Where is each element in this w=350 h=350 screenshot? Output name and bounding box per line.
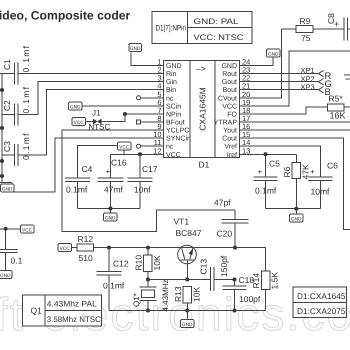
svg-text:VCC: VCC: [60, 246, 71, 252]
svg-text:C16: C16: [111, 157, 127, 167]
svg-text:10K: 10K: [152, 255, 162, 270]
svg-text:C17: C17: [142, 164, 158, 174]
svg-text:XP3: XP3: [301, 82, 315, 91]
svg-text:0.1mf: 0.1mf: [21, 45, 31, 73]
svg-text:VCC: VCC: [22, 227, 33, 233]
svg-text:1.5K: 1.5K: [270, 272, 280, 290]
svg-text:GND: GND: [291, 216, 302, 222]
svg-text:VT1: VT1: [174, 217, 190, 227]
svg-text:10nf: 10nf: [134, 185, 151, 195]
svg-text:R13: R13: [173, 286, 183, 302]
capacitor C11 0.1 decoupling: [0, 229, 23, 271]
svg-text:10K: 10K: [192, 287, 202, 302]
svg-text:150pf: 150pf: [219, 255, 229, 277]
svg-text:4.43MHz: 4.43MHz: [161, 279, 170, 311]
svg-text:C5: C5: [269, 158, 280, 168]
capacitor C13: [199, 255, 235, 291]
wire pin11 nc stub: [141, 145, 164, 147]
ground pin24 GND box: [267, 49, 281, 57]
capacitor C6 polarized: [309, 161, 339, 209]
svg-text:GND: GND: [268, 51, 279, 57]
svg-text:C6: C6: [327, 161, 338, 171]
node Iref junction: [264, 152, 268, 156]
wire pin5 nc stub: [141, 97, 164, 99]
node bus junction b: [0, 126, 4, 130]
svg-text:Vref: Vref: [224, 143, 237, 151]
svg-text:0.1: 0.1: [11, 256, 23, 266]
svg-text:D1:CXA1645: D1:CXA1645: [297, 291, 346, 301]
resistor R6: [282, 154, 311, 208]
svg-text:Bin: Bin: [166, 86, 176, 94]
node XP3 connector: [301, 82, 331, 98]
wire jumper branch: [102, 114, 126, 122]
power VCC box R12: [58, 244, 77, 252]
svg-text:C13: C13: [199, 259, 209, 275]
wire pin20 CVout riser to R9: [240, 29, 282, 98]
svg-text:R10: R10: [134, 255, 144, 271]
node bus junction c: [0, 159, 4, 163]
wire C5 R6 C6 ground rail: [266, 208, 321, 210]
wire pin14 Vref to C6: [240, 146, 321, 177]
ground pin10 GND box: [1, 184, 15, 192]
power VCC box left oscillator rail: [0, 225, 34, 233]
ground left decoupling GND box: [0, 271, 12, 279]
wire C1 to pin2 Rin: [18, 73, 164, 75]
svg-text:VCC: VCC: [166, 152, 181, 159]
wire oscillator ground rail: [109, 310, 266, 312]
svg-text:47mf: 47mf: [104, 185, 124, 195]
svg-text:Video, Composite coder: Video, Composite coder: [0, 9, 131, 23]
svg-text:C12: C12: [113, 259, 129, 269]
svg-text:GND: GND: [221, 63, 237, 70]
crystal Q1* 4.43MHz: [132, 279, 170, 311]
svg-text:GND: PAL: GND: PAL: [194, 17, 240, 26]
svg-text:Bout: Bout: [223, 87, 237, 94]
node pin11 open circle: [137, 144, 141, 148]
wire pin9 YCLPC long route to C20: [62, 130, 235, 231]
ground pin6 GND box: [69, 102, 83, 110]
node C20 bottom junction: [233, 246, 237, 250]
node pin8 open square: [137, 120, 141, 124]
svg-text:C3: C3: [2, 141, 12, 152]
svg-text:GND: GND: [2, 186, 13, 192]
svg-text:0.1mf: 0.1mf: [21, 132, 31, 160]
svg-text:FO: FO: [227, 112, 237, 119]
IC right pin numbers 24-13: [242, 58, 250, 156]
svg-text:Q1: Q1: [31, 305, 43, 315]
capacitor C18 100pf: [223, 275, 261, 311]
svg-text:3.58Mhz NTSC: 3.58Mhz NTSC: [47, 315, 101, 324]
svg-text:Cout: Cout: [222, 136, 237, 143]
wire C4 top to VCC: [78, 146, 118, 179]
resistor R12: [77, 234, 109, 263]
transistor Q2 VT1 BC847: [174, 217, 236, 280]
node R13 bottom junction: [185, 309, 189, 313]
svg-text:510: 510: [79, 253, 93, 263]
node crystal top junction: [146, 278, 150, 282]
svg-text:nc: nc: [166, 144, 174, 151]
node XP2 connector: [301, 74, 332, 90]
node C18 bottom junction: [233, 309, 237, 313]
node XP1 connector: [301, 66, 332, 82]
svg-text:D1: D1: [199, 160, 210, 170]
node R10 top junction: [146, 246, 150, 250]
ground bus GND box: [0, 183, 12, 191]
svg-text:C2: C2: [2, 100, 12, 111]
svg-text:GND: GND: [0, 273, 11, 279]
resistor R9: [281, 16, 344, 43]
svg-text:BC847: BC847: [176, 228, 202, 238]
svg-text:CXA1645M: CXA1645M: [198, 87, 208, 130]
svg-text:C1: C1: [2, 59, 12, 70]
svg-text:GND: GND: [105, 215, 116, 221]
svg-text:YCLPC: YCLPC: [166, 128, 189, 135]
node C13 C18 junction: [233, 278, 237, 282]
capacitor C1: [0, 45, 31, 85]
svg-text:10mf: 10mf: [311, 187, 331, 197]
svg-text:GND: GND: [182, 322, 193, 328]
capacitor C17: [128, 154, 158, 208]
svg-text:–>: –>: [196, 64, 206, 74]
capacitor C4: [65, 164, 93, 209]
resistor R5*: [328, 94, 350, 121]
wire pin6 SCin: [82, 105, 164, 107]
svg-text:D1:CXA2075: D1:CXA2075: [297, 306, 346, 316]
node left rail junction: [4, 227, 8, 231]
wire C2 to pin3 Gin: [18, 82, 164, 115]
svg-text:VCC: VCC: [119, 144, 130, 150]
svg-text:Gin: Gin: [166, 78, 177, 86]
svg-text:0.1mf: 0.1mf: [66, 185, 88, 195]
svg-text:YTRAP: YTRAP: [214, 120, 238, 127]
power VCC box pin12: [118, 142, 132, 154]
svg-text:GND: GND: [70, 104, 81, 110]
svg-text:J1: J1: [92, 108, 101, 117]
node R6 ground junction: [294, 207, 298, 211]
wire pin15 Cout: [240, 138, 350, 229]
svg-text:R6: R6: [282, 166, 292, 177]
capacitor C8 polarized output: [326, 13, 350, 41]
svg-text:47pf: 47pf: [214, 197, 231, 207]
svg-text:CVout: CVout: [218, 95, 237, 102]
svg-text:Yout: Yout: [223, 128, 237, 135]
capacitor C12: [97, 248, 129, 311]
svg-text:R14: R14: [251, 273, 261, 289]
wire C3 to pin4 Bin: [18, 90, 164, 155]
svg-text:VCC: VCC: [222, 103, 237, 110]
svg-text:R5*: R5*: [329, 94, 344, 104]
node crystal bottom junction: [146, 309, 150, 313]
svg-text:C20: C20: [217, 229, 233, 239]
wire pin13 Iref: [240, 153, 297, 155]
wire pin1 GND: [131, 53, 164, 66]
svg-text:0.1mf: 0.1mf: [103, 280, 125, 290]
wire pin12 VCC: [111, 153, 164, 155]
note box Q1 4.43Mhz PAL / 3.58Mhz NTSC: [22, 295, 101, 326]
svg-text:Q1*: Q1*: [132, 293, 141, 307]
svg-text:75: 75: [301, 33, 311, 43]
node C16 ground junction: [109, 207, 113, 211]
wire pin22 Gout to XP2: [240, 81, 319, 83]
capacitor C16 polarized: [98, 154, 127, 208]
svg-text:+: +: [334, 19, 339, 29]
ground C5 rail GND box: [290, 209, 304, 223]
ground edge connector bars: [344, 75, 350, 79]
wire pin8 BFout stub: [141, 121, 164, 123]
wire pin24 GND: [240, 57, 274, 66]
node R12 C12 junction: [107, 246, 111, 250]
node bus junction d: [0, 174, 4, 178]
svg-text:16K: 16K: [330, 110, 346, 120]
svg-text:C4: C4: [82, 164, 93, 174]
svg-text:VCC: NTSC: VCC: NTSC: [194, 33, 244, 42]
op-amp substitute: IC U1 CXA1645M (D1) body: [164, 61, 240, 170]
wire pin23 Rout to XP1: [240, 73, 319, 75]
svg-text:NPin: NPin: [166, 111, 181, 119]
svg-text:0.1mf: 0.1mf: [255, 186, 277, 196]
IC left pin labels pins 1-12: [166, 63, 191, 159]
wire base rail R12 to VT1: [109, 247, 178, 249]
svg-text:SCin: SCin: [166, 102, 181, 110]
node bus junction a: [0, 88, 4, 92]
svg-text:Iref: Iref: [227, 151, 237, 159]
svg-text:R12: R12: [78, 234, 94, 244]
jumper J1: [86, 108, 111, 131]
svg-text:SYNCin: SYNCin: [166, 135, 191, 143]
svg-text:Rout: Rout: [222, 71, 237, 78]
power J1 VCC box: [72, 118, 86, 126]
svg-text:+: +: [310, 168, 315, 177]
node pin7 junction: [123, 112, 127, 116]
svg-text:GND: GND: [130, 46, 141, 52]
svg-text:+: +: [258, 168, 263, 177]
resistor R10: [134, 248, 163, 280]
ground C16 GND box: [104, 209, 118, 222]
wire pin18 FO to R5: [240, 107, 328, 114]
wire left input bus: [1, 74, 3, 183]
capacitor C20 47pf: [214, 197, 249, 247]
note table D1:CXA1645 / D1:CXA2075: [293, 287, 347, 318]
IC right pin labels pins 24-13: [214, 63, 238, 159]
ground R13 GND box: [181, 311, 195, 328]
wire crystal to C13 rail: [148, 279, 210, 281]
svg-text:BFout: BFout: [166, 120, 185, 127]
svg-text:Rin: Rin: [166, 70, 177, 78]
svg-text:4.43Mhz PAL: 4.43Mhz PAL: [47, 300, 98, 309]
svg-text:GND: GND: [166, 63, 182, 70]
svg-text:0.1mf: 0.1mf: [21, 86, 31, 114]
svg-text:+: +: [106, 167, 111, 176]
resistor R13: [173, 286, 202, 310]
svg-text:Gout: Gout: [222, 79, 237, 86]
IC left pin numbers 1-12: [153, 58, 161, 156]
wire pin10 SYNCin to ground: [7, 138, 164, 192]
wire pin19 VCC riser: [240, 51, 350, 106]
wire pin7 NPin: [125, 113, 164, 115]
capacitor C5 polarized: [254, 154, 281, 208]
node VT1 base junction: [185, 278, 189, 282]
capacitor C3: [2, 132, 31, 166]
capacitor C2: [2, 86, 31, 126]
ground pin1 GND box: [129, 44, 142, 52]
wire pin17 YTRAP: [240, 121, 350, 123]
resistor R14: [235, 248, 280, 311]
wire pin21 Bout to XP3: [240, 89, 319, 91]
node pin5 nc open circle: [137, 96, 141, 100]
svg-text:nc: nc: [166, 95, 174, 102]
svg-text:VCC: VCC: [74, 120, 85, 126]
wire C4 C16 C17 ground rail: [78, 208, 141, 210]
svg-text:100pf: 100pf: [239, 294, 261, 304]
svg-text:D1[7]:NPin: D1[7]:NPin: [156, 24, 187, 33]
node pin12 junction C17: [138, 152, 142, 156]
wire pin16 Yout: [240, 129, 350, 131]
svg-text:R9: R9: [300, 16, 311, 26]
note box D1[7]:NPin GND:PAL VCC:NTSC: [152, 12, 252, 44]
